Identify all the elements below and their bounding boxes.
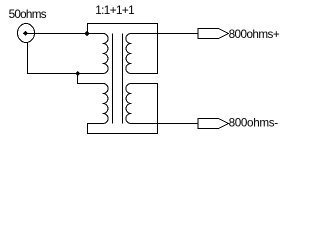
transformer core line left: [112, 34, 114, 124]
wire secondary1 top to port1: [131, 33, 198, 35]
winding L2 primary bottom-left: [102, 84, 108, 124]
winding L3 secondary top-right: [126, 34, 132, 74]
wire L4 bottom to port2: [131, 123, 198, 125]
port symbol 800ohms+: [198, 29, 229, 39]
svg-text:800ohms+: 800ohms+: [229, 28, 280, 41]
svg-text:50ohms: 50ohms: [9, 8, 47, 21]
winding L4 secondary bottom-right: [126, 84, 132, 124]
source V1 circle: [18, 24, 35, 43]
svg-text:800ohms-: 800ohms-: [229, 117, 279, 130]
wire junction B down to winding L2 top: [78, 74, 104, 84]
node junction dot A: [84, 31, 89, 36]
wire series link L2 bottom to L4 top: [88, 84, 158, 134]
transformer core line right: [122, 34, 124, 124]
node junction dot B: [75, 71, 80, 76]
svg-text:1:1+1+1: 1:1+1+1: [95, 4, 134, 17]
wire source bottom loop: [28, 42, 104, 74]
port symbol 800ohms-: [198, 119, 229, 129]
wire source to primary top: [23, 33, 103, 35]
wire bridge primary top to secondary1 bottom: [88, 24, 158, 74]
winding L1 primary top-left: [102, 34, 108, 74]
source V1 center dot: [23, 31, 28, 36]
